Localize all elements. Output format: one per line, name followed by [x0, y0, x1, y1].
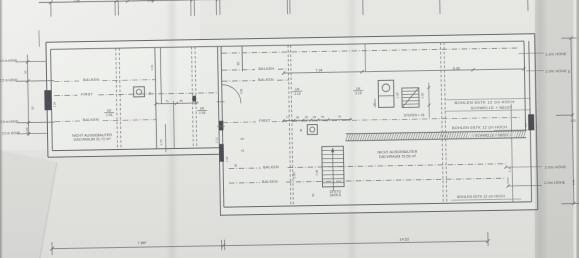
svg-text:FIRST: FIRST — [81, 92, 94, 96]
svg-text:= SCHWELLE = NEIGT =: = SCHWELLE = NEIGT = — [472, 133, 512, 138]
svg-text:BALKEN: BALKEN — [83, 78, 99, 82]
svg-text:3.52: 3.52 — [570, 119, 576, 123]
svg-text:18/25.5: 18/25.5 — [329, 193, 340, 197]
svg-text:1.95: 1.95 — [199, 111, 205, 115]
svg-text:BALKEN: BALKEN — [263, 165, 279, 169]
svg-text:STUFEN = 16: STUFEN = 16 — [404, 113, 425, 117]
svg-text:1.00: 1.00 — [420, 92, 424, 98]
svg-text:2.5 m HÖHE: 2.5 m HÖHE — [0, 120, 18, 124]
svg-text:71: 71 — [165, 99, 169, 103]
svg-text:45: 45 — [299, 128, 303, 132]
svg-text:25: 25 — [313, 115, 317, 119]
svg-text:1.61: 1.61 — [150, 64, 154, 70]
svg-text:95: 95 — [23, 70, 27, 74]
svg-text:DACHRAUM 31.72 m²: DACHRAUM 31.72 m² — [74, 137, 112, 142]
svg-text:BALKEN: BALKEN — [258, 78, 274, 82]
svg-text:3.30: 3.30 — [292, 172, 296, 179]
svg-text:6.42: 6.42 — [453, 66, 460, 70]
svg-text:2.56: 2.56 — [148, 0, 154, 2]
svg-text:BALKEN: BALKEN — [262, 180, 278, 184]
svg-text:90: 90 — [236, 62, 240, 66]
svg-text:45: 45 — [296, 115, 300, 119]
svg-text:75: 75 — [321, 115, 325, 119]
svg-text:1.0m HÖHE: 1.0m HÖHE — [544, 180, 566, 184]
svg-text:75: 75 — [338, 115, 342, 119]
svg-text:25: 25 — [305, 115, 309, 119]
svg-text:82: 82 — [31, 106, 35, 110]
svg-text:SCHWELLE + NEIGT: SCHWELLE + NEIGT — [471, 105, 513, 111]
svg-text:45: 45 — [148, 91, 152, 95]
svg-text:2.5 m HÖHE: 2.5 m HÖHE — [0, 78, 18, 82]
svg-text:2.0m HÖHE: 2.0m HÖHE — [545, 69, 567, 73]
svg-text:0.88: 0.88 — [239, 88, 243, 94]
svg-text:BALKEN: BALKEN — [258, 67, 274, 71]
svg-text:2.76: 2.76 — [159, 139, 163, 145]
svg-text:2.61: 2.61 — [571, 179, 575, 185]
svg-text:45: 45 — [179, 99, 183, 103]
svg-text:BALKEN: BALKEN — [83, 118, 99, 122]
svg-text:1.34: 1.34 — [52, 101, 56, 107]
svg-text:1.00: 1.00 — [395, 92, 399, 98]
svg-text:1.10: 1.10 — [225, 156, 229, 162]
svg-text:80: 80 — [311, 193, 315, 197]
svg-text:7.94: 7.94 — [315, 68, 322, 72]
svg-text:7.86⁵: 7.86⁵ — [137, 240, 147, 245]
svg-text:95: 95 — [567, 69, 571, 73]
svg-text:2.16: 2.16 — [355, 91, 361, 95]
svg-text:2.56: 2.56 — [74, 0, 80, 3]
svg-text:2.0m HÖHE: 2.0m HÖHE — [545, 165, 567, 169]
svg-text:2.16: 2.16 — [294, 92, 300, 96]
svg-text:1.95: 1.95 — [106, 113, 112, 117]
svg-text:1.13: 1.13 — [215, 137, 219, 143]
svg-text:1.90: 1.90 — [315, 169, 319, 175]
svg-text:2.0 m HÖHE: 2.0 m HÖHE — [0, 59, 17, 63]
svg-text:2.0 m HÖHE: 2.0 m HÖHE — [2, 131, 20, 135]
svg-text:60: 60 — [241, 137, 245, 141]
svg-text:FIRST: FIRST — [259, 119, 271, 123]
svg-text:90: 90 — [234, 163, 238, 167]
svg-text:77: 77 — [286, 116, 290, 120]
svg-text:DACHRAUM 75.55 m²: DACHRAUM 75.55 m² — [379, 154, 417, 159]
svg-text:2.25: 2.25 — [25, 127, 29, 133]
svg-text:75: 75 — [241, 149, 245, 153]
svg-text:14.52: 14.52 — [399, 236, 409, 241]
svg-text:1.0m HÖHE: 1.0m HÖHE — [545, 52, 567, 56]
svg-text:BOHLEN 6STK 12 cm HOCH: BOHLEN 6STK 12 cm HOCH — [457, 194, 505, 199]
svg-text:35: 35 — [373, 102, 377, 106]
